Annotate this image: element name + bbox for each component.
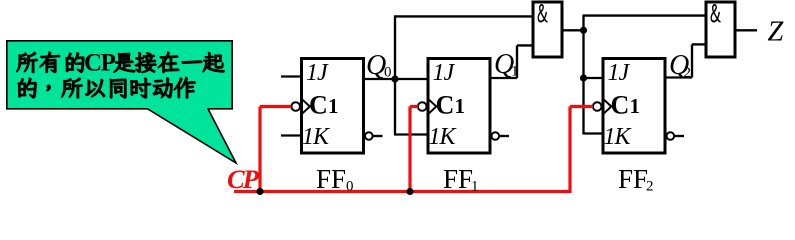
wire Q0 to FF1 1K — [394, 133, 429, 135]
text glyph 所 — [62, 78, 83, 98]
flip-flop FF1 body — [428, 59, 490, 154]
U1 label & — [538, 4, 548, 22]
text glyph ， — [47, 85, 51, 91]
red wire into FF0 clock — [260, 105, 291, 108]
wire Q1 vertical — [516, 45, 518, 78]
svg-text:C: C — [436, 91, 455, 120]
wire Q0 vertical riser — [394, 16, 396, 134]
FF1 complement output stub — [499, 135, 509, 137]
wire Q0: FF0 Q to FF1 1J — [363, 78, 429, 80]
FF2 clock inversion bubble — [593, 102, 602, 111]
svg-text:FF: FF — [618, 164, 648, 194]
svg-text:CP: CP — [84, 50, 116, 77]
wire U1 output to FF2 1K — [583, 132, 604, 134]
red wire CP riser to FF0 — [258, 107, 261, 192]
junction CP-FF0 — [256, 188, 263, 195]
red wire into FF1 clock — [410, 105, 418, 108]
FF0 clock inversion bubble — [291, 102, 300, 111]
text glyph 时 — [131, 78, 151, 98]
FF1 clock edge-triangle — [429, 100, 436, 114]
AND gate U1 body — [533, 2, 562, 57]
text glyph 作 — [174, 77, 195, 98]
svg-text:1J: 1J — [433, 60, 456, 86]
svg-text:1K: 1K — [302, 124, 331, 150]
text glyph 所 — [17, 52, 38, 72]
wire U1 output to FF2 1J — [584, 77, 604, 79]
red wire CP main horizontal — [234, 190, 572, 193]
FF2 clock edge-triangle — [604, 100, 611, 114]
flip-flop FF0 body — [302, 59, 364, 154]
wire Q1 to AND U1 bottom input — [517, 44, 534, 46]
svg-text:1J: 1J — [608, 60, 631, 86]
FF1 complement output bubble — [492, 132, 500, 140]
wire FF0 1J input stub — [281, 75, 302, 77]
text glyph 动 — [153, 78, 172, 98]
FF0 complement output bubble — [365, 132, 373, 140]
junction U1 output node — [580, 27, 587, 34]
svg-text:Z: Z — [768, 17, 785, 48]
svg-text:1K: 1K — [429, 124, 458, 150]
text glyph 的 — [18, 78, 36, 98]
AND gate U2 body — [706, 2, 735, 57]
wire Q2: FF2 Q output — [665, 76, 693, 78]
red wire into FF2 clock — [570, 105, 593, 108]
wire U1 output to AND U2 top input — [583, 14, 707, 16]
FF1 clock inversion bubble — [418, 102, 427, 111]
red wire CP riser to FF2 — [568, 107, 571, 192]
junction Q0 node — [391, 75, 398, 82]
callout bubble (green speech balloon) — [7, 41, 236, 163]
junction FF2 1J tap — [580, 74, 587, 81]
wire U1 output vertical riser — [582, 16, 584, 134]
FF2 complement output bubble — [667, 132, 675, 140]
wire U2 output to Z — [735, 29, 758, 31]
wire U1 output — [562, 29, 585, 31]
wire Q2 vertical — [691, 44, 693, 77]
text glyph 是 — [114, 53, 135, 72]
svg-text:1: 1 — [471, 179, 479, 195]
FF0 complement output stub — [373, 135, 383, 137]
svg-text:1: 1 — [511, 64, 519, 80]
text glyph 同 — [110, 79, 126, 98]
svg-text:1K: 1K — [604, 124, 633, 150]
text glyph 在 — [158, 52, 179, 73]
FF0 clock edge-triangle — [303, 100, 310, 114]
svg-text:1J: 1J — [306, 60, 329, 86]
flip-flop FF2 body — [603, 59, 665, 154]
FF2 complement output stub — [674, 135, 684, 137]
svg-text:FF: FF — [316, 164, 346, 194]
svg-text:1: 1 — [328, 94, 339, 118]
svg-text:C: C — [611, 91, 630, 120]
svg-text:CP: CP — [227, 164, 260, 194]
text glyph 以 — [85, 79, 104, 97]
text glyph 有 — [40, 52, 60, 73]
text glyph 接 — [135, 53, 156, 73]
svg-text:FF: FF — [443, 164, 473, 194]
svg-text:1: 1 — [630, 94, 641, 118]
svg-text:1: 1 — [455, 94, 466, 118]
svg-text:2: 2 — [684, 65, 692, 81]
U2 label & — [711, 4, 721, 22]
wire Q2 to AND U2 bottom input — [692, 43, 707, 45]
wire Q0 to AND U1 top input — [394, 15, 534, 17]
text glyph 的 — [66, 53, 84, 73]
svg-text:0: 0 — [384, 65, 392, 81]
wire Q1: FF1 Q output — [490, 77, 518, 79]
text glyph 一 — [182, 61, 202, 64]
text glyph 起 — [203, 52, 224, 72]
red wire CP riser to FF1 — [408, 107, 411, 192]
svg-text:2: 2 — [646, 179, 654, 195]
junction CP-FF1 — [406, 188, 413, 195]
svg-text:C: C — [309, 91, 328, 120]
svg-text:0: 0 — [346, 179, 354, 195]
wire FF0 1K input stub — [281, 134, 302, 136]
